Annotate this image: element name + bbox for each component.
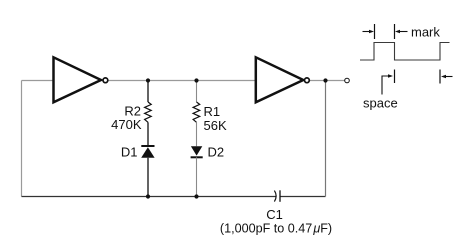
wire left vertical feedback xyxy=(21,81,23,197)
node output terminal xyxy=(345,78,350,83)
space dimension tick right xyxy=(439,70,441,84)
mark dimension arrow right xyxy=(395,30,408,34)
wire R1 branch upper lead xyxy=(196,81,198,103)
node junction top R2 xyxy=(146,78,150,82)
wire bottom horizontal right of C1 xyxy=(280,196,326,198)
svg-text:470K: 470K xyxy=(111,117,142,132)
wire output horizontal to terminal xyxy=(310,80,345,82)
svg-text:R1: R1 xyxy=(204,104,221,119)
space leader arrow xyxy=(382,74,393,94)
svg-text:space: space xyxy=(363,96,398,111)
wire R2 to D1 xyxy=(147,122,149,146)
wire input horizontal to U1 xyxy=(22,80,55,82)
diode D2 xyxy=(191,146,203,157)
space dimension arrow right xyxy=(441,75,453,79)
space dimension tick left xyxy=(394,70,396,84)
wire bottom horizontal left of C1 xyxy=(22,196,276,198)
node junction top R1 xyxy=(194,78,198,82)
node junction output xyxy=(323,78,327,82)
node junction bottom D2 xyxy=(194,194,198,198)
wire D2 lower lead xyxy=(196,157,198,196)
mark dimension arrow left xyxy=(363,30,375,34)
wire output vertical down to bottom rail xyxy=(325,81,327,197)
wire R2 branch upper lead xyxy=(147,81,149,103)
svg-text:56K: 56K xyxy=(204,118,227,133)
op-amp U2 inverter 2 xyxy=(256,57,309,102)
svg-text:D1: D1 xyxy=(121,145,138,160)
svg-text:mark: mark xyxy=(411,25,440,40)
node junction bottom D1 xyxy=(146,194,150,198)
resistor R1 xyxy=(193,102,200,122)
op-amp U1 inverter 1 xyxy=(54,57,108,102)
resistor R2 xyxy=(145,102,152,122)
svg-text:C1: C1 xyxy=(266,207,283,222)
capacitor C1 xyxy=(274,190,280,202)
svg-text:D2: D2 xyxy=(208,145,225,160)
waveform output square wave xyxy=(360,43,450,61)
mark dimension tick left xyxy=(374,24,376,39)
wire R1 to D2 xyxy=(196,122,198,146)
svg-text:(1,000pF to 0.47μF): (1,000pF to 0.47μF) xyxy=(220,222,332,236)
diode D1 xyxy=(141,146,154,158)
mark dimension tick right xyxy=(394,24,396,39)
wire D1 lower lead xyxy=(147,158,149,197)
wire main horizontal between inverters xyxy=(108,80,256,82)
